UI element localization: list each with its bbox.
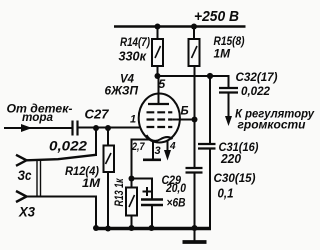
capacitor C32 [219, 88, 238, 93]
svg-text:громкости: громкости [238, 120, 306, 132]
node junction bus/C30 ground [192, 225, 198, 231]
wire screen node down to C30 [194, 120, 196, 168]
node junction bus left corner [93, 225, 99, 231]
wire R14 to anode node [157, 66, 159, 76]
resistor R12 [104, 146, 115, 173]
svg-text:Б: Б [181, 106, 189, 118]
tube V4 envelope [139, 94, 180, 143]
wire R12 top lead [107, 128, 109, 146]
svg-text:6ЖЗП: 6ЖЗП [105, 84, 139, 98]
wire anode stem into tube [158, 76, 160, 104]
node junction on rail at R15 [191, 24, 197, 30]
node junction cathode/R13/C29 [129, 176, 135, 182]
svg-text:Зс: Зс [18, 167, 32, 183]
wire grid node [78, 127, 142, 129]
heater arrow pin 4 [164, 150, 171, 161]
wire pickup branch horizontal [27, 155, 97, 161]
connector X3 contact ground [16, 191, 27, 202]
svg-text:С32(17): С32(17) [236, 72, 278, 84]
tube grid row 3 [147, 126, 173, 128]
wire anode node horizontal [158, 76, 229, 88]
capacitor C29 [141, 200, 163, 206]
node junction on rail at R14 [155, 24, 161, 30]
connector X3 double link line [37, 160, 41, 197]
resistor R14 [152, 39, 163, 66]
svg-text:330к: 330к [119, 50, 147, 64]
svg-text:1М: 1М [82, 176, 101, 190]
node junction bus/R12 [105, 226, 111, 232]
capacitor C31 [198, 144, 216, 149]
ground bar pin 3 [143, 159, 161, 162]
wire ground bus [96, 227, 211, 230]
tube grid row 2 [147, 118, 173, 120]
capacitor C30 [186, 168, 203, 173]
wire pickup branch vertical [95, 128, 97, 156]
svg-text:1: 1 [130, 114, 136, 126]
node junction anode/C31 [207, 73, 213, 79]
wire R12 to ground bus [107, 172, 109, 229]
node junction anode/R14 [155, 73, 161, 79]
wire C29 to ground bus [151, 205, 153, 228]
wire pin 3 lead [152, 141, 154, 159]
svg-text:R14(7): R14(7) [120, 37, 150, 49]
wire pin 4 heater lead [167, 140, 169, 151]
resistor R15 [189, 39, 200, 66]
chassis ground bar [183, 240, 207, 244]
input direction arrow [21, 124, 32, 132]
node junction bus/C29 [149, 225, 155, 231]
wire rail to R14 [157, 27, 159, 40]
wire screen lead pin Б [172, 119, 194, 121]
wire R13 to ground bus [131, 216, 133, 229]
output arrow to volume control [225, 116, 232, 126]
svg-text:С27: С27 [85, 108, 110, 122]
wire R15 down to screen node [194, 66, 196, 120]
svg-text:×6В: ×6В [167, 198, 186, 210]
svg-text:20,0: 20,0 [165, 183, 186, 195]
wire X3 ground side [27, 197, 97, 228]
wire rail to R15 [193, 27, 195, 40]
svg-text:0,022: 0,022 [49, 139, 88, 154]
wire C31 branch down [209, 76, 211, 144]
svg-text:R13 1к: R13 1к [114, 178, 126, 207]
capacitor C29 polarity + [143, 187, 152, 196]
tube anode plate [148, 103, 169, 105]
connector X3 contact 3с [16, 155, 27, 166]
chassis ground stem [194, 228, 196, 241]
svg-text:0,1: 0,1 [218, 187, 234, 201]
resistor R13 [126, 188, 137, 216]
svg-text:1М: 1М [214, 47, 231, 61]
svg-text:5: 5 [159, 77, 166, 91]
svg-text:тора: тора [22, 110, 53, 124]
svg-text:220: 220 [220, 152, 241, 166]
wire +250V rail [114, 25, 246, 28]
wire detector input line [4, 127, 72, 129]
node junction grid/pickup [93, 125, 99, 131]
tube cathode [147, 135, 173, 141]
tube grid row 1 [147, 111, 173, 113]
svg-text:+250 В: +250 В [194, 8, 239, 25]
wire cathode pins 2,7 lead [132, 140, 150, 188]
svg-text:3: 3 [155, 145, 161, 157]
wire C30 to ground bus [194, 173, 196, 228]
svg-text:2,7: 2,7 [131, 141, 145, 153]
node junction bus/R13 [129, 225, 135, 231]
wire C31 to ground bus corner [209, 149, 211, 230]
wire C32 to output arrow [228, 93, 230, 118]
svg-text:С30(15): С30(15) [214, 173, 256, 185]
node junction screen/R15/C30 [192, 117, 198, 123]
svg-text:0,022: 0,022 [241, 86, 271, 98]
node junction grid/R12 [105, 125, 111, 131]
capacitor C27 [73, 121, 78, 136]
wire cathode node to C29 [132, 179, 153, 200]
svg-text:Х3: Х3 [18, 204, 35, 220]
